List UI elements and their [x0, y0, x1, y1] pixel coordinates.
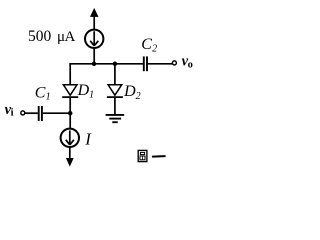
capacitor C2 [144, 56, 147, 71]
svg-text:C1: C1 [35, 85, 51, 103]
current source I bottom lead with arrow to negative supply [66, 147, 74, 167]
wire vi to C1 [25, 112, 38, 114]
caption figure one (drawn CJK glyphs) [138, 150, 165, 161]
diode D1 [62, 85, 78, 97]
node C1 / D1 / I junction [68, 111, 73, 116]
wire C1 to node [43, 112, 70, 114]
ground [106, 115, 125, 122]
svg-text:μA: μA [57, 29, 76, 45]
terminal vo output [172, 61, 176, 65]
current source 500uA (circle with down arrow) [85, 30, 103, 48]
diode D2 [107, 85, 123, 97]
node bus / 500uA source junction [92, 62, 97, 67]
wire C2 to vo terminal [148, 63, 172, 65]
wire bus to D2 anode [114, 63, 116, 85]
node bus / D2 junction [113, 62, 118, 67]
wire D1 cathode to node and to current source I [69, 97, 71, 129]
svg-text:500: 500 [28, 28, 52, 45]
capacitor C1 [39, 106, 42, 121]
current source I (circle with down arrow) [61, 129, 79, 147]
current source top lead arrow to positive supply [90, 8, 99, 29]
wire bus to D1 anode [69, 63, 71, 85]
wire current source to bus [93, 48, 95, 64]
label 500 uA value of top current source [28, 28, 76, 45]
svg-text:C2: C2 [141, 36, 157, 54]
terminal vi input [21, 111, 25, 115]
svg-text:vo: vo [182, 53, 193, 70]
wire D2 cathode to ground [114, 97, 116, 114]
svg-text:D1: D1 [77, 82, 95, 101]
svg-text:I: I [84, 130, 92, 149]
svg-text:D2: D2 [123, 83, 141, 102]
svg-text:vi: vi [5, 102, 14, 118]
wire top bus [69, 63, 142, 65]
